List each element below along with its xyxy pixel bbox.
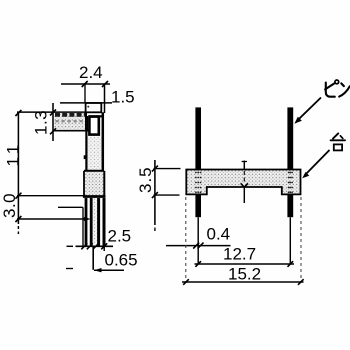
pin top tab: [86, 103, 102, 112]
tick 3.5 top: [152, 166, 158, 172]
pin tab inner dot: [87, 106, 89, 108]
arm bottom edge: [53, 130, 91, 132]
dimension line lead bottom: [76, 245, 114, 247]
arrow board level: [84, 217, 91, 221]
tick 2.4 left: [82, 81, 88, 87]
lead channel stipple: [93, 198, 97, 246]
center V notch: [241, 183, 248, 187]
base block top edge: [84, 170, 104, 172]
extension step horizontal: [58, 206, 83, 208]
leader line base: [305, 150, 330, 176]
svg-text:1.5: 1.5: [111, 88, 135, 107]
extension line tab left: [84, 84, 86, 103]
tick lead bottom d: [101, 243, 107, 249]
extension line arm top: [17, 111, 85, 113]
centerline below bar: [243, 188, 245, 203]
tick 0.4 a: [193, 243, 199, 249]
extension line bar right down: [300, 197, 302, 283]
dimension line 3.5 dash: [154, 228, 156, 232]
tick 12.7 left: [195, 261, 201, 267]
pin left notch: [84, 155, 87, 159]
svg-text:2.5: 2.5: [108, 227, 132, 246]
base block bottom edge: [83, 195, 106, 198]
tick 3.5 bottom: [152, 192, 158, 198]
extension line lead right down: [103, 198, 105, 251]
extension line bar bottom left: [154, 194, 180, 196]
centerline through bar: [243, 171, 245, 184]
arm dash row dark: [55, 113, 85, 117]
label pin katakana: [325, 80, 350, 97]
svg-text:12.7: 12.7: [223, 245, 256, 264]
tick 15.2 left: [183, 279, 189, 285]
lead edge 3: [97, 198, 100, 246]
tick lead bottom a: [81, 243, 87, 249]
extension line block left down: [82, 207, 84, 246]
left pin hidden dots: [195, 172, 201, 194]
leader vertical 0.65: [92, 246, 94, 269]
dimension line 1.3: [52, 103, 54, 141]
dimension line dashes bottom: [17, 226, 19, 234]
extension dash 0.65 left: [66, 268, 73, 270]
tick 0.4 b: [198, 243, 204, 249]
tick 11 top: [15, 110, 21, 116]
base block body: [84, 172, 104, 195]
right pin hidden dots: [288, 172, 293, 194]
base block left edge: [83, 171, 85, 196]
tick 12.7 right: [288, 261, 294, 267]
base block right edge: [103, 171, 105, 196]
arm dash row light: [56, 120, 85, 122]
extension line tab right: [104, 84, 106, 113]
lead edge 1: [85, 198, 88, 246]
hook cup top ledge: [89, 115, 103, 117]
extension line bar top left: [154, 168, 181, 170]
dimension line 0.4: [166, 245, 231, 247]
pin right edge: [102, 112, 105, 170]
hook corner thick: [85, 116, 88, 131]
svg-text:0.4: 0.4: [207, 225, 231, 244]
svg-text:1.3: 1.3: [32, 110, 51, 135]
arm stipple: [54, 113, 85, 129]
centerline dot: [242, 161, 247, 163]
leader arrow 0.65: [94, 268, 102, 272]
extension line bar left down: [185, 197, 187, 283]
pin body stipple: [88, 137, 102, 171]
svg-text:2.4: 2.4: [79, 63, 103, 82]
tick board level: [15, 216, 21, 222]
extension line board level: [17, 218, 87, 220]
svg-text:3.0: 3.0: [0, 193, 19, 218]
tick 15.2 right: [298, 279, 304, 285]
leader line pin: [297, 98, 321, 121]
tick lead bottom c: [93, 243, 99, 249]
leader line 0.65: [94, 269, 124, 271]
label base kanji: [331, 133, 345, 150]
tick 2.4 right: [102, 81, 108, 87]
lead edge 4: [103, 198, 106, 246]
dimension line 11 and 3.0: [17, 112, 19, 224]
pin body left edge: [85, 131, 87, 171]
leader arrow pin: [294, 117, 302, 124]
centerline above bar: [243, 161, 245, 170]
svg-text:11: 11: [4, 141, 23, 167]
tick 1.3 top: [50, 110, 56, 116]
tick 3.0 top: [15, 193, 21, 199]
hook cup: [89, 117, 98, 135]
lead edge 2: [90, 198, 93, 246]
extension line right pin down: [289, 217, 291, 264]
extension dash lead bottom left: [67, 245, 74, 247]
extension line left pin down: [197, 217, 199, 264]
left pin: [195, 107, 201, 217]
dimension line 15.2: [182, 281, 304, 283]
svg-text:15.2: 15.2: [228, 265, 261, 284]
tick lead bottom b: [87, 243, 93, 249]
extension line top of pin: [60, 102, 112, 104]
dimension line 3.5: [154, 160, 156, 225]
right pin: [287, 107, 293, 217]
base bar: [186, 170, 300, 195]
tick 1.3 bottom: [50, 128, 56, 134]
leader arrow base: [302, 172, 309, 178]
extension line block bottom left: [17, 195, 83, 197]
dimension line 2.4: [61, 83, 110, 85]
dimension line 12.7: [195, 263, 295, 265]
hook corner: [85, 112, 87, 117]
svg-text:0.65: 0.65: [105, 251, 138, 270]
